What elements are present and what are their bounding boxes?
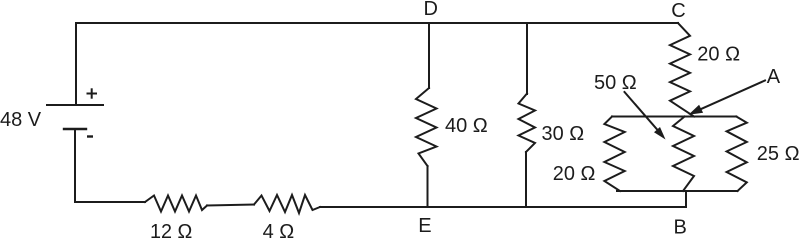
resistor 50 ohm middle parallel branch xyxy=(673,117,694,192)
wire 30 ohm down to bottom rail xyxy=(525,152,527,207)
svg-text:C: C xyxy=(671,0,685,22)
arrowhead of A pointer xyxy=(689,105,704,115)
arrow from label 50 ohm to middle resistor xyxy=(625,92,659,131)
wire between 12 ohm and 4 ohm xyxy=(207,205,254,206)
label battery minus xyxy=(87,135,93,137)
svg-text:E: E xyxy=(418,215,431,237)
wire node B from bottom rail of parallel block down xyxy=(685,191,687,207)
resistor 20 ohm top right from C to A xyxy=(670,23,694,117)
resistor R2 4 ohm xyxy=(254,195,320,213)
svg-text:A: A xyxy=(767,66,781,88)
wire node D down to 40 ohm xyxy=(428,23,430,88)
wire battery negative down to bottom rail xyxy=(75,129,145,202)
arrowhead of 50 ohm pointer xyxy=(654,127,666,140)
wire top rail from battery to C xyxy=(76,23,678,105)
battery V1 long plate xyxy=(47,104,103,106)
svg-text:25 Ω: 25 Ω xyxy=(757,143,800,165)
wire bottom rail from 4 ohm to B xyxy=(320,206,686,208)
wire bottom rail of parallel block xyxy=(617,190,738,192)
label battery plus xyxy=(87,88,98,98)
arrow from label A to node A xyxy=(701,81,765,110)
svg-text:20 Ω: 20 Ω xyxy=(553,163,596,185)
svg-text:D: D xyxy=(424,0,438,20)
battery V1 short plate xyxy=(64,128,86,130)
svg-text:48 V: 48 V xyxy=(0,109,42,131)
resistor 12 ohm xyxy=(145,196,207,212)
resistor 25 ohm right parallel branch xyxy=(727,117,747,192)
svg-text:B: B xyxy=(674,217,687,239)
resistor 20 ohm left parallel branch xyxy=(604,117,624,192)
svg-text:40 Ω: 40 Ω xyxy=(445,115,488,137)
svg-text:20 Ω: 20 Ω xyxy=(697,44,740,66)
svg-text:12 Ω: 12 Ω xyxy=(150,221,192,238)
svg-text:50 Ω: 50 Ω xyxy=(594,72,637,94)
wire top rail of parallel block xyxy=(612,116,736,118)
resistor 40 ohm xyxy=(416,88,437,166)
wire top rail down to 30 ohm xyxy=(526,23,528,94)
wire 40 ohm down to node E xyxy=(427,166,429,207)
svg-text:30 Ω: 30 Ω xyxy=(542,123,585,145)
svg-text:4 Ω: 4 Ω xyxy=(263,221,295,238)
resistor 30 ohm xyxy=(519,94,536,153)
